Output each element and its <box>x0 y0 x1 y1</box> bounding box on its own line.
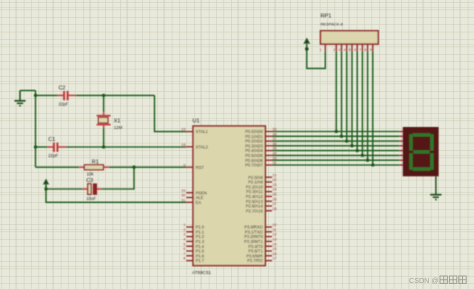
RP1 pin 7 stub <box>359 44 362 52</box>
svg-text:12: 12 <box>272 233 276 237</box>
capacitor C3 (10uF electrolytic) <box>83 184 102 195</box>
U1 pin 17 P3.7/RD (right) <box>247 257 276 264</box>
svg-text:15: 15 <box>272 247 276 251</box>
svg-text:P1.7: P1.7 <box>196 258 205 263</box>
svg-text:6: 6 <box>183 247 185 251</box>
value label 22pF (C1) <box>48 153 58 158</box>
label R1 <box>92 160 99 166</box>
svg-text:3: 3 <box>338 48 340 52</box>
svg-text:24: 24 <box>272 188 276 192</box>
wire: P0.6 to 7-seg display <box>272 159 403 161</box>
svg-text:CSDN @: CSDN @ <box>409 276 439 285</box>
wire: GND bus to C1 left lead <box>36 146 48 148</box>
U1 pin 11 P3.1/TXD (right) <box>245 228 277 235</box>
svg-text:14: 14 <box>272 242 276 246</box>
wire: X1 top lead <box>103 95 105 112</box>
svg-text:XTAL1: XTAL1 <box>196 129 209 134</box>
RP1 pin 5 stub <box>349 44 352 52</box>
U1 pin 14 P3.4/T0 (right) <box>248 242 276 249</box>
wire: RP1 pin 3 pull-up to P0.1 <box>341 51 343 136</box>
svg-text:1: 1 <box>183 223 185 227</box>
svg-text:22: 22 <box>272 178 276 182</box>
svg-text:12M: 12M <box>114 125 123 130</box>
junction: RP1 pull-up / P0.7 <box>371 163 374 166</box>
svg-text:26: 26 <box>272 197 276 201</box>
U1 pin 22 P2.1/A9 (right) <box>248 178 277 185</box>
svg-text:8: 8 <box>183 257 185 261</box>
U1 pin 38 P0.1/AD1 (right) <box>245 132 277 139</box>
U1 pin 9 RST (left) <box>183 163 204 170</box>
U1 pin 18 XTAL2 (left) <box>181 143 208 150</box>
RP1 pin 9 stub <box>370 44 373 52</box>
svg-text:17: 17 <box>272 257 276 261</box>
svg-text:U1: U1 <box>193 118 200 124</box>
U1 pin 31 EA (left) <box>181 198 201 205</box>
svg-text:4: 4 <box>183 238 185 242</box>
resistor R1 <box>79 165 109 170</box>
U1 pin 29 PSEN (left) <box>181 189 207 196</box>
wire: display common to ground <box>435 176 437 194</box>
junction: C1 wire / X1 bottom lead <box>102 145 105 148</box>
U1 pin 19 XTAL1 (left) <box>181 128 208 135</box>
junction: RST wire / C3 branch <box>132 166 135 169</box>
U1 pin 39 P0.0/AD0 (right) <box>245 128 277 135</box>
svg-text:RST: RST <box>196 165 205 170</box>
svg-text:30: 30 <box>181 194 185 198</box>
svg-text:X1: X1 <box>114 118 121 124</box>
svg-text:2: 2 <box>333 48 335 52</box>
svg-text:2: 2 <box>183 228 185 232</box>
svg-text:11: 11 <box>272 228 276 232</box>
svg-text:6: 6 <box>354 48 356 52</box>
wire: RP1 pin 2 pull-up to P0.0 <box>335 51 337 131</box>
label RP1 <box>321 14 332 20</box>
svg-text:10uF: 10uF <box>86 196 96 201</box>
U1 pin 2 P1.1 (left) <box>183 228 204 235</box>
U1 pin 32 P0.7/AD7 (right) <box>245 161 277 168</box>
U1 pin 35 P0.4/AD4 (right) <box>245 147 277 154</box>
wire: RP1 pin1 to VCC terminal (right) <box>307 43 326 69</box>
U1 pin 37 P0.2/AD2 (right) <box>245 137 277 144</box>
U1 pin 3 P1.2 (left) <box>183 233 204 240</box>
svg-text:27: 27 <box>272 202 276 206</box>
wire: left vertical bus (GND net) <box>35 91 37 168</box>
wire: C1 to XTAL2 pin <box>66 146 187 148</box>
svg-text:25: 25 <box>272 193 276 197</box>
RP1 pin 8 stub <box>365 44 368 52</box>
RP1 pin 1 (common) stub <box>320 44 326 52</box>
U1 pin 23 P2.2/A10 (right) <box>246 183 277 190</box>
svg-text:9: 9 <box>370 48 372 52</box>
junction: RP1 pull-up / P0.6 <box>366 159 369 162</box>
part label AT89C51 <box>192 270 212 275</box>
svg-text:AT89C51: AT89C51 <box>192 270 212 275</box>
junction: GND bus / C1 wire <box>34 145 37 148</box>
svg-text:22pF: 22pF <box>48 153 58 158</box>
wire: P0.2 to 7-seg display <box>272 140 403 142</box>
svg-text:RESPACK-8: RESPACK-8 <box>321 22 344 27</box>
svg-text:P0.7/AD7: P0.7/AD7 <box>245 163 263 168</box>
RP1 pin 4 stub <box>344 44 347 52</box>
svg-text:XTAL2: XTAL2 <box>196 144 209 149</box>
value label 10k (R1) <box>87 172 95 177</box>
svg-text:P2.7/A15: P2.7/A15 <box>246 208 264 213</box>
wire: RP1 pin 4 pull-up to P0.2 <box>346 51 348 141</box>
U1 pin 16 P3.6/WR (right) <box>246 252 276 259</box>
U1 pin 34 P0.5/AD5 (right) <box>245 152 277 159</box>
U1 pin 30 ALE (left) <box>181 194 203 201</box>
svg-text:1: 1 <box>320 48 322 52</box>
label C2 <box>59 86 66 92</box>
wire: RP1 pin 9 pull-up to P0.7 <box>372 51 374 165</box>
ground (bottom-right) <box>430 195 441 200</box>
wire: RST junction down to C3 right lead <box>102 167 135 189</box>
wire: P0.4 to 7-seg display <box>272 150 403 152</box>
U1 pin 26 P2.5/A13 (right) <box>246 197 277 204</box>
wire: X1 bottom lead to XTAL2 wire <box>103 128 105 147</box>
wire: GND bus corner to R1 left lead <box>36 166 80 168</box>
svg-text:3: 3 <box>183 233 185 237</box>
U1 pin 28 P2.7/A15 (right) <box>246 207 277 214</box>
svg-text:23: 23 <box>272 183 276 187</box>
svg-text:R1: R1 <box>92 160 99 166</box>
U1 pin 36 P0.3/AD3 (right) <box>245 142 277 149</box>
junction: GND bus / C2 wire <box>34 94 37 97</box>
junction: RP1 pull-up / P0.1 <box>340 135 343 138</box>
label X1 <box>114 118 121 124</box>
power terminal VCC (right, RP1 common) <box>303 38 310 51</box>
junction: VCC stem / C3 wire <box>44 187 47 190</box>
U1 pin 24 P2.3/A11 (right) <box>246 188 277 195</box>
U1 pin 4 P1.3 (left) <box>183 238 204 245</box>
value label 22pF (C2) <box>59 102 69 107</box>
junction: RP1 pull-up / P0.2 <box>345 139 348 142</box>
wire: RP1 pin 7 pull-up to P0.5 <box>361 51 363 155</box>
value label 12M (X1) <box>114 125 123 130</box>
U1 pin 6 P1.5 (left) <box>183 247 204 254</box>
wire: RP1 pin 6 pull-up to P0.4 <box>356 51 358 150</box>
svg-text:31: 31 <box>181 198 185 202</box>
svg-text:P3.7/RD: P3.7/RD <box>247 258 263 263</box>
wire: P0.3 to 7-seg display <box>272 145 403 147</box>
U1 pin 21 P2.0/A8 (right) <box>248 173 277 180</box>
label C1 <box>48 137 55 143</box>
svg-text:5: 5 <box>349 48 351 52</box>
junction: C2 wire / X1 top lead <box>102 94 105 97</box>
wire: corner down to XTAL1 pin <box>155 95 187 131</box>
svg-text:5: 5 <box>183 242 185 246</box>
svg-text:21: 21 <box>272 173 276 177</box>
U1 pin 25 P2.4/A12 (right) <box>246 193 277 200</box>
wire: P0.7 to 7-seg display <box>272 164 403 166</box>
RP1 pin 2 stub <box>333 44 336 52</box>
svg-text:4: 4 <box>344 48 346 52</box>
ground (top-left) <box>14 91 25 106</box>
svg-text:29: 29 <box>181 189 185 193</box>
svg-text:10k: 10k <box>87 172 95 177</box>
U1 pin 5 P1.4 (left) <box>183 242 204 249</box>
label C3 <box>86 178 93 184</box>
crystal X1 <box>97 112 111 128</box>
wire: C2 to XTAL1 corner <box>76 94 155 96</box>
U1 pin 12 P3.2/INT0 (right) <box>244 233 276 240</box>
capacitor C2 <box>58 91 77 100</box>
U1 pin 10 P3.0/RXD (right) <box>244 223 276 230</box>
junction: RP1 pull-up / P0.5 <box>361 154 364 157</box>
svg-text:9: 9 <box>183 163 185 167</box>
U1 pin 1 P1.0 (left) <box>183 223 204 230</box>
wire: ground to left bus corner <box>20 90 36 92</box>
svg-text:28: 28 <box>272 207 276 211</box>
svg-text:7: 7 <box>359 48 361 52</box>
svg-text:EA: EA <box>196 200 202 205</box>
svg-text:18: 18 <box>181 143 185 147</box>
junction: RP1 pull-up / P0.0 <box>335 130 338 133</box>
U1 pin 27 P2.6/A14 (right) <box>246 202 277 209</box>
svg-text:10: 10 <box>272 223 276 227</box>
part label RESPACK-8 <box>321 22 344 27</box>
U1 pin 8 P1.7 (left) <box>183 257 204 264</box>
svg-text:C2: C2 <box>59 86 66 92</box>
U1 pin 13 P3.3/INT1 (right) <box>244 238 276 245</box>
wire: RP1 pin 5 pull-up to P0.3 <box>351 51 353 145</box>
wire: R1 to RST pin <box>109 166 187 168</box>
wire: P0.1 to 7-seg display <box>272 135 403 137</box>
svg-text:13: 13 <box>272 238 276 242</box>
U1 pin 15 P3.5/T1 (right) <box>248 247 276 254</box>
RP1 pin 3 stub <box>338 44 341 52</box>
svg-text:C1: C1 <box>48 137 55 143</box>
wire: P0.0 to 7-seg display <box>272 131 403 133</box>
wire: GND bus to C2 left lead <box>36 94 58 96</box>
capacitor C1 <box>47 143 65 152</box>
svg-text:16: 16 <box>272 252 276 256</box>
RP1 pin 6 stub <box>354 44 357 52</box>
wire: C3 left lead to VCC terminal <box>46 188 83 190</box>
microcontroller U1 AT89C51 <box>193 126 265 266</box>
svg-text:19: 19 <box>181 128 185 132</box>
wire: RP1 pin 8 pull-up to P0.6 <box>367 51 369 160</box>
svg-text:22pF: 22pF <box>59 102 69 107</box>
svg-text:RP1: RP1 <box>321 14 332 20</box>
junction: RP1 pull-up / P0.3 <box>350 144 353 147</box>
svg-text:7: 7 <box>183 252 185 256</box>
label U1 <box>193 118 200 124</box>
7-segment display (common cathode) <box>403 127 439 176</box>
value label 10uF (C3) <box>86 196 96 201</box>
power terminal VCC (left) <box>43 179 49 189</box>
svg-text:C3: C3 <box>86 178 93 184</box>
watermark CSDN <box>409 276 466 285</box>
resistor pack RP1 RESPACK-8 <box>321 31 379 44</box>
U1 pin 7 P1.6 (left) <box>183 252 204 259</box>
wire: VCC terminal down to EA pin <box>46 189 186 202</box>
U1 pin 33 P0.6/AD6 (right) <box>245 156 277 163</box>
wire: P0.5 to 7-seg display <box>272 154 403 156</box>
junction: RP1 pull-up / P0.4 <box>356 149 359 152</box>
svg-text:8: 8 <box>365 48 367 52</box>
